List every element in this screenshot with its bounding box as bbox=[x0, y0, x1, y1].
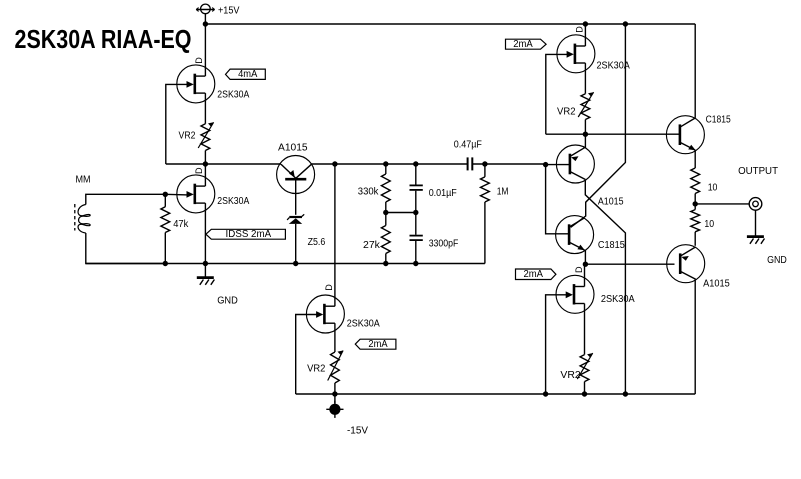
wire signal line mid bbox=[312, 163, 468, 165]
wire Q6 drain to rail bbox=[584, 24, 586, 46]
svg-text:A1015: A1015 bbox=[598, 196, 624, 207]
label VR2 (bottom-center) bbox=[307, 363, 326, 374]
svg-text:47k: 47k bbox=[173, 219, 189, 230]
junction dot 47k bottom bbox=[163, 261, 168, 266]
wire bias line lower bbox=[585, 263, 674, 265]
svg-text:10: 10 bbox=[708, 182, 718, 193]
label C1815 of Q9 bbox=[706, 115, 731, 126]
label GND (input) bbox=[217, 296, 238, 307]
svg-text:GND: GND bbox=[767, 255, 787, 266]
pin label D of Q1 bbox=[194, 57, 204, 64]
wire Q1 gate loop bbox=[166, 84, 188, 164]
current label 4mA bbox=[226, 69, 266, 80]
transistor Q3 A1015 (horizontal, cascode) bbox=[277, 156, 315, 194]
junction dot signal/1M bbox=[482, 161, 487, 166]
svg-text:3300pF: 3300pF bbox=[429, 238, 459, 249]
svg-text:D: D bbox=[574, 266, 584, 273]
wire connector to ground bbox=[755, 210, 757, 235]
wire node to Q4 base bbox=[546, 164, 570, 166]
junction dot -rail/VR2 right bbox=[582, 391, 587, 396]
wire Q3 base down bbox=[295, 181, 297, 215]
label Z5.6 bbox=[308, 237, 326, 248]
junction dot signal/J3 drain bbox=[332, 161, 337, 166]
svg-text:2SK30A RIAA-EQ: 2SK30A RIAA-EQ bbox=[15, 24, 192, 54]
svg-text:D: D bbox=[194, 167, 204, 174]
transistor Q9 C1815 (output upper) bbox=[666, 116, 704, 154]
svg-text:0.47µF: 0.47µF bbox=[454, 140, 482, 151]
svg-text:2SK30A: 2SK30A bbox=[217, 90, 249, 101]
variable resistor VR2 (bottom-center) bbox=[328, 351, 343, 384]
current label 2mA (lower-right) bbox=[516, 269, 556, 280]
svg-text:0.01µF: 0.01µF bbox=[429, 188, 457, 199]
wire node down to Q5 base bbox=[546, 165, 570, 234]
junction dot Q2 source/gnd rail bbox=[203, 261, 208, 266]
junction dot mid/caps bbox=[413, 210, 418, 215]
label 2SK30A of Q1 bbox=[217, 90, 249, 101]
svg-text:A1015: A1015 bbox=[278, 143, 308, 154]
svg-text:C1815: C1815 bbox=[706, 115, 731, 126]
label 2SK30A of Q8 bbox=[601, 294, 635, 305]
wire Q8 gate bias bbox=[546, 295, 568, 394]
resistor 47k bbox=[161, 194, 170, 263]
pin label D of Q7 bbox=[324, 284, 334, 291]
pin label D of Q6 bbox=[575, 26, 585, 33]
label 2SK30A of Q2 bbox=[217, 196, 249, 207]
svg-text:4mA: 4mA bbox=[238, 69, 258, 80]
svg-text:C1815: C1815 bbox=[598, 240, 625, 251]
wire Q2 drain up bbox=[204, 164, 206, 186]
junction dot rail/J1 drain bbox=[203, 21, 208, 26]
label OUTPUT bbox=[738, 166, 778, 177]
current label IDSS 2mA bbox=[206, 229, 286, 240]
junction dot 27k bottom bbox=[383, 261, 388, 266]
wire Q7 drain up to signal bbox=[334, 164, 336, 306]
junction dot rail/J5 drain bbox=[583, 21, 588, 26]
svg-text:VR2: VR2 bbox=[560, 370, 581, 381]
label VR2 (upper-right) bbox=[557, 107, 576, 118]
label 2SK30A of Q7 bbox=[347, 318, 380, 329]
zener diode Z5.6 bbox=[287, 214, 304, 263]
junction dot signal/0.01uF bbox=[413, 161, 418, 166]
current label 2mA (bottom-center) bbox=[355, 339, 396, 350]
svg-text:10: 10 bbox=[704, 219, 714, 230]
junction dot bias/VR2 bbox=[583, 132, 588, 137]
wire input to Q2 gate bbox=[165, 193, 188, 196]
wire ground rail bbox=[86, 263, 485, 265]
svg-text:2SK30A: 2SK30A bbox=[347, 318, 380, 329]
wire Q5 emitter down bbox=[584, 250, 586, 264]
svg-text:2SK30A: 2SK30A bbox=[217, 196, 249, 207]
label 1M bbox=[497, 187, 509, 198]
junction dot Q5 emitter node bbox=[583, 262, 588, 267]
wire Q6 source lead bbox=[584, 63, 586, 94]
junction dot input node bbox=[163, 192, 168, 197]
label MM bbox=[76, 175, 91, 186]
ground symbol (output) bbox=[747, 237, 765, 244]
junction dot 3300pF bottom bbox=[413, 261, 418, 266]
label GND (output) bbox=[767, 255, 787, 266]
wire Q1 drain to +15V rail bbox=[204, 24, 206, 76]
label A1015 of Q4 bbox=[598, 196, 624, 207]
+15V power terminal bbox=[196, 4, 214, 24]
wire Q6 gate bias bbox=[546, 54, 568, 134]
wire +15V rail bbox=[205, 23, 695, 25]
variable resistor VR2 (top-left) bbox=[198, 122, 213, 150]
svg-text:2SK30A: 2SK30A bbox=[601, 294, 635, 305]
capacitor 0.47uF bbox=[468, 157, 473, 170]
svg-text:A1015: A1015 bbox=[703, 279, 730, 290]
svg-text:GND: GND bbox=[217, 296, 238, 307]
wire Q8 drain up bbox=[584, 264, 586, 286]
variable resistor VR2 (upper-right) bbox=[578, 92, 593, 119]
svg-text:1M: 1M bbox=[497, 187, 509, 198]
label 2SK30A of Q6 bbox=[597, 60, 631, 71]
junction dot signal/330k bbox=[383, 161, 388, 166]
junction dot -rail/Q4 collector bbox=[623, 391, 628, 396]
wire Q1 source lead bbox=[204, 93, 206, 124]
wire signal line left bbox=[166, 163, 281, 165]
ground symbol (input) bbox=[197, 264, 215, 285]
svg-text:D: D bbox=[324, 284, 334, 291]
svg-text:Z5.6: Z5.6 bbox=[308, 237, 326, 248]
wire +rail to Q5 collector bbox=[571, 24, 626, 227]
svg-text:OUTPUT: OUTPUT bbox=[738, 166, 778, 177]
wire Q7 source lead bbox=[334, 323, 336, 352]
jfet Q8 2SK30A (lower-right current source) bbox=[556, 275, 594, 313]
wire Q10 collector to -rail bbox=[694, 279, 696, 394]
wire MM top bbox=[86, 194, 166, 204]
connector OUTPUT jack bbox=[749, 198, 762, 211]
label A1015 of Q10 bbox=[703, 279, 730, 290]
wire bias line upper bbox=[546, 133, 680, 135]
wire output node to connector bbox=[695, 203, 749, 205]
junction dot buffer input node bbox=[543, 162, 548, 167]
junction dot zener/gnd rail bbox=[293, 261, 298, 266]
core dashed line of MM bbox=[74, 204, 76, 231]
jfet Q2 2SK30A (input) bbox=[177, 175, 215, 213]
wire Q7 gate bias bbox=[296, 315, 318, 395]
resistor 330k bbox=[381, 164, 390, 213]
wire Q4 collector to -rail bbox=[585, 180, 625, 395]
svg-text:2mA: 2mA bbox=[513, 39, 533, 50]
title text 2SK30A RIAA-EQ bbox=[15, 24, 192, 54]
label 0.01uF bbox=[429, 188, 457, 199]
transistor Q5 C1815 (lower driver) bbox=[556, 216, 594, 254]
label A1015 of Q3 bbox=[278, 143, 308, 154]
wire VR2 to bias line bbox=[584, 120, 586, 135]
label VR2 (lower-right) bbox=[560, 370, 581, 381]
svg-text:+15V: +15V bbox=[218, 6, 240, 17]
label 330k bbox=[358, 187, 380, 198]
transistor Q4 A1015 (upper driver) bbox=[556, 145, 594, 183]
transistor Q10 A1015 (output lower) bbox=[667, 245, 705, 283]
svg-text:2mA: 2mA bbox=[523, 269, 543, 280]
svg-text:VR2: VR2 bbox=[179, 131, 196, 142]
junction dot signal/J2 drain bbox=[203, 161, 208, 166]
capacitor 3300pF bbox=[410, 213, 423, 264]
junction dot mid/330k-27k bbox=[383, 210, 388, 215]
resistor 27k bbox=[381, 213, 390, 264]
svg-text:-15V: -15V bbox=[347, 426, 368, 437]
-15V power terminal bbox=[326, 394, 343, 418]
wire -15V rail bbox=[296, 393, 696, 395]
junction dot -rail/Q8 gate bbox=[543, 391, 548, 396]
inductor MM cartridge coil bbox=[78, 205, 90, 234]
wire Q4 emitter up bbox=[584, 134, 586, 147]
svg-text:IDSS 2mA: IDSS 2mA bbox=[226, 229, 272, 240]
label +15V bbox=[218, 6, 240, 17]
wire Q9 emitter down bbox=[694, 150, 696, 168]
label 47k bbox=[173, 219, 189, 230]
jfet Q1 2SK30A (top-left current source) bbox=[177, 65, 215, 103]
wire signal after cap bbox=[473, 163, 546, 165]
resistor 10 (upper) bbox=[691, 168, 700, 204]
wire VR2 to -rail bbox=[584, 382, 586, 394]
resistor 1M bbox=[481, 164, 490, 264]
junction dot -rail/VR2 center bbox=[332, 391, 337, 396]
wire RIAA mid row bbox=[386, 212, 416, 214]
wire Q9 collector to +rail bbox=[694, 24, 696, 118]
capacitor 0.01uF bbox=[410, 164, 423, 213]
svg-text:VR2: VR2 bbox=[307, 363, 326, 374]
svg-text:2mA: 2mA bbox=[368, 339, 388, 350]
svg-text:330k: 330k bbox=[358, 187, 380, 198]
svg-text:27k: 27k bbox=[363, 240, 381, 251]
pin label D of Q8 bbox=[574, 266, 584, 273]
label 10 (lower) bbox=[704, 219, 714, 230]
resistor 10 (lower) bbox=[691, 204, 700, 246]
pin label D of Q2 bbox=[194, 167, 204, 174]
wire Q2 source down bbox=[204, 203, 206, 263]
wire Q8 source lead bbox=[584, 304, 586, 355]
label -15V bbox=[347, 426, 368, 437]
variable resistor VR2 (lower-right) bbox=[577, 353, 592, 382]
label 10 (upper) bbox=[708, 182, 718, 193]
svg-text:MM: MM bbox=[76, 175, 91, 186]
jfet Q7 2SK30A (bottom-center current source) bbox=[306, 295, 344, 333]
svg-text:D: D bbox=[194, 57, 204, 64]
label 0.47uF bbox=[454, 140, 482, 151]
wire VR2 to -rail bbox=[334, 383, 336, 394]
svg-text:D: D bbox=[575, 26, 585, 33]
wire VR2 to signal line bbox=[204, 151, 206, 165]
svg-text:VR2: VR2 bbox=[557, 107, 576, 118]
label 27k bbox=[363, 240, 381, 251]
wire MM bottom bbox=[86, 233, 166, 264]
current label 2mA (upper-right) bbox=[506, 39, 547, 50]
label C1815 of Q5 bbox=[598, 240, 625, 251]
junction dot output node bbox=[693, 201, 698, 206]
jfet Q6 2SK30A (upper-right current source) bbox=[557, 35, 595, 73]
label VR2 (top-left) bbox=[179, 131, 196, 142]
label 3300pF bbox=[429, 238, 459, 249]
junction dot rail/Q4 collector branch bbox=[623, 21, 628, 26]
